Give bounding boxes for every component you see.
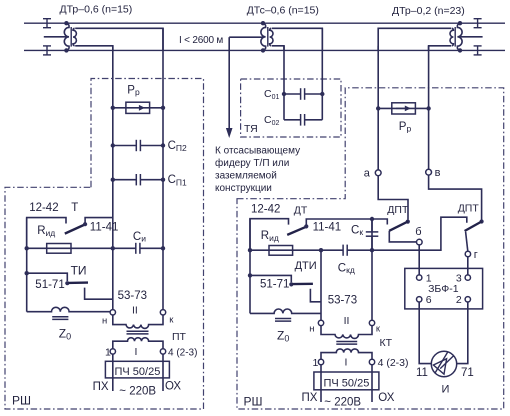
transformer KT secondary I [321, 349, 372, 359]
terminal 1 (PT) [110, 349, 115, 354]
capacitor Si [113, 243, 165, 254]
svg-text:ДТр–0,6 (n=15): ДТр–0,6 (n=15) [60, 4, 133, 16]
svg-text:Скд: Скд [338, 262, 355, 275]
svg-text:б: б [415, 226, 421, 238]
transformer KT core [336, 342, 357, 345]
svg-text:н: н [309, 324, 314, 335]
terminal 4 (KT) [369, 359, 374, 364]
wire KT terminal1 down [320, 365, 322, 402]
svg-text:ДТс–0,6 (n=15): ДТс–0,6 (n=15) [247, 5, 319, 17]
impedance bond DT1 [44, 21, 77, 53]
insulated joint left top rail [43, 19, 51, 28]
svg-text:4 (2-3): 4 (2-3) [168, 347, 197, 358]
left vertical wire 2 [162, 28, 164, 309]
rail bottom [24, 49, 505, 51]
contact DPT right [429, 175, 484, 251]
svg-text:Ск: Ск [351, 224, 363, 237]
svg-text:в: в [435, 167, 441, 179]
rail top [24, 22, 505, 24]
resistor Rid left [25, 244, 116, 254]
svg-text:~ 220В: ~ 220В [324, 397, 361, 409]
svg-text:ОХ: ОХ [378, 392, 394, 404]
terminal b [417, 239, 423, 245]
svg-text:II: II [344, 315, 350, 327]
svg-text:6: 6 [426, 294, 432, 306]
terminal 6 (ZBF) [417, 297, 422, 302]
wire horizontal Rid row to right DPT back contact [372, 217, 467, 250]
terminal n (PT) [110, 310, 115, 315]
capacitor Sk [366, 217, 379, 250]
svg-text:конструкции: конструкции [215, 183, 272, 194]
inductor Z0 middle [250, 309, 321, 321]
insulated joint right top rail [474, 19, 482, 28]
contact TI 51-71/53-73 [25, 271, 113, 299]
wire Sk vertical down to k [371, 219, 373, 320]
TYa dashed box [241, 79, 341, 137]
svg-text:а: а [364, 168, 371, 180]
wire bond1 secondary bottom to vertical1 [75, 46, 113, 50]
resistor Rp right [376, 103, 431, 114]
dashed cabinet boundary right (RSh) [237, 88, 504, 409]
svg-text:К отсасывающему: К отсасывающему [215, 146, 300, 157]
resistor Rp left [111, 102, 166, 113]
transformer PT secondary I [113, 338, 163, 349]
svg-text:ПХ: ПХ [302, 392, 318, 404]
middle left branch vertical [249, 219, 251, 314]
box PCh 50/25 middle [314, 372, 379, 390]
svg-text:51-71: 51-71 [35, 279, 64, 291]
svg-text:ДПТ: ДПТ [387, 204, 409, 216]
contact DPT left [378, 176, 416, 242]
transformer PT core [127, 331, 149, 334]
left vertical wire 1 (rails to transformer) [112, 46, 114, 310]
terminal k (PT) [160, 310, 165, 315]
capacitor SP2 [111, 140, 166, 151]
svg-text:ПХ: ПХ [93, 381, 109, 393]
terminal v [426, 169, 432, 175]
capacitor C02 [284, 114, 322, 126]
transformer KT primary II [321, 326, 372, 339]
svg-text:ПТ: ПТ [172, 331, 187, 343]
wire g to ZBF terminal 3 [467, 257, 469, 275]
wire bond2 tap down with arrow to feeder [226, 37, 233, 138]
svg-text:I: I [345, 357, 348, 369]
svg-text:11-41: 11-41 [313, 222, 342, 234]
terminal n (KT) [318, 320, 323, 325]
impedance bond DT2 (middle) [229, 21, 273, 53]
svg-text:ТИ: ТИ [71, 263, 87, 277]
svg-text:71: 71 [461, 367, 474, 379]
transformer PT primary II [113, 315, 163, 328]
svg-text:Rид: Rид [37, 225, 55, 238]
svg-text:Си: Си [133, 231, 146, 244]
middle main vertical [320, 250, 322, 320]
svg-text:заземляемой: заземляемой [215, 171, 277, 182]
svg-text:ДТр–0,2 (n=23): ДТр–0,2 (n=23) [392, 5, 465, 17]
svg-text:РШ: РШ [244, 395, 263, 409]
contact T 12-42/11-41 [27, 218, 113, 249]
contact DTI 51-71/53-73 [248, 273, 321, 302]
svg-text:ДПТ: ДПТ [458, 203, 480, 215]
wire bond1 secondary top to vertical2 [75, 28, 163, 50]
left branch vertical [26, 218, 28, 312]
svg-text:ДТИ: ДТИ [295, 260, 317, 272]
svg-text:I: I [135, 346, 138, 358]
svg-text:2: 2 [456, 294, 462, 306]
svg-text:11-41: 11-41 [90, 221, 119, 233]
svg-text:РШ: РШ [12, 394, 31, 408]
svg-text:Рр: Рр [127, 84, 140, 97]
terminal 1 (KT) [318, 359, 323, 364]
wire bond3 secondary bottom to vertical-v [429, 46, 452, 50]
capacitor SP1 [111, 174, 166, 185]
wire bond3 secondary top to vertical-a [378, 28, 451, 50]
svg-text:1: 1 [313, 357, 319, 369]
svg-text:ПЧ 50/25: ПЧ 50/25 [324, 378, 370, 390]
svg-text:~ 220В: ~ 220В [119, 386, 156, 398]
svg-text:1: 1 [105, 347, 111, 359]
svg-text:ДТ: ДТ [294, 205, 308, 217]
svg-text:КТ: КТ [380, 337, 393, 349]
svg-text:Т: Т [71, 202, 78, 214]
svg-text:II: II [132, 305, 138, 317]
insulated joint right bottom rail [474, 46, 482, 55]
terminal 4 (PT) [160, 349, 165, 354]
dashed cabinet boundary left (RSh) [5, 79, 204, 410]
contact DT 12-42/11-41 [250, 219, 387, 251]
lamp I [431, 351, 456, 376]
terminal a [375, 170, 381, 176]
svg-text:I < 2600 м: I < 2600 м [179, 35, 223, 46]
svg-text:ОХ: ОХ [165, 381, 181, 393]
svg-text:51-71: 51-71 [260, 279, 289, 291]
svg-text:12-42: 12-42 [29, 202, 58, 214]
svg-text:фидеру Т/П или: фидеру Т/П или [215, 157, 289, 169]
svg-text:ТЯ: ТЯ [244, 123, 258, 135]
wire PT terminal1 down [112, 354, 114, 391]
terminal k (KT) [369, 320, 374, 325]
svg-text:4 (2-3): 4 (2-3) [378, 357, 409, 369]
right vertical v [428, 46, 430, 170]
terminal g [465, 251, 470, 256]
box PCh 50/25 left [105, 361, 169, 378]
svg-text:И: И [442, 383, 450, 395]
wire ZBF-6 to lamp [419, 302, 431, 364]
wire PT terminal4 down [162, 354, 164, 391]
impedance bond DT3 (right, mirrored) [450, 21, 483, 53]
svg-text:н: н [102, 316, 107, 327]
text to suction feeder [215, 146, 300, 195]
svg-text:г: г [474, 249, 478, 261]
svg-text:11: 11 [416, 367, 428, 379]
svg-text:53-73: 53-73 [328, 294, 357, 306]
resistor Rid middle [248, 246, 323, 256]
wire b to ZBF terminal 1 [418, 245, 420, 275]
terminal 3 (ZBF) [465, 275, 470, 280]
insulated joint left bottom rail [43, 46, 51, 55]
wire ZBF-2 to lamp [457, 302, 468, 364]
wire KT terminal4 down [371, 365, 373, 402]
wire TYa left vertical [283, 46, 285, 120]
wire TYa right vertical [321, 28, 323, 120]
capacitor C01 [282, 88, 325, 100]
svg-text:Rид: Rид [261, 230, 279, 243]
terminal 2 (ZBF) [465, 297, 470, 302]
inductor Z0 left [27, 307, 111, 319]
capacitor Skd [321, 245, 374, 256]
wire bond2 secondary top [272, 28, 323, 50]
svg-text:53-73: 53-73 [118, 290, 147, 302]
wire bond2 secondary bottom [272, 46, 284, 50]
relay box ZBF-1 [405, 268, 483, 309]
svg-text:12-42: 12-42 [251, 204, 280, 216]
svg-text:ПЧ 50/25: ПЧ 50/25 [115, 366, 161, 378]
svg-text:Рр: Рр [399, 121, 412, 134]
svg-text:ЗБФ-1: ЗБФ-1 [428, 283, 459, 295]
terminal 1 (ZBF) [417, 275, 422, 280]
right vertical a [377, 46, 379, 170]
